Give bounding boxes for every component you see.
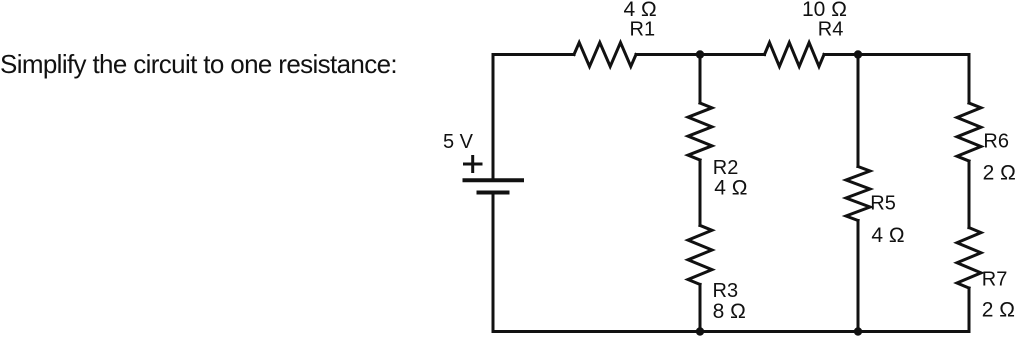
svg-text:4 Ω: 4 Ω (871, 224, 904, 247)
wire R6 to R7 (968, 161, 971, 228)
svg-text:4 Ω: 4 Ω (714, 177, 747, 200)
resistor R2 (688, 103, 712, 160)
wire node B to top right corner (858, 55, 969, 104)
wire R1 to node A (636, 53, 700, 56)
resistor R7 (957, 228, 981, 288)
svg-text:2 Ω: 2 Ω (982, 299, 1015, 322)
plus sign of battery (463, 155, 483, 173)
wire node A to R2 (699, 55, 702, 104)
node C junction dot (696, 327, 704, 335)
resistor R5 (846, 167, 870, 221)
svg-text:R4: R4 (818, 19, 844, 41)
battery V1 plate long (+) (463, 178, 525, 182)
svg-text:5 V: 5 V (443, 131, 474, 153)
wire R4 to node B (824, 53, 858, 56)
node B junction dot (854, 50, 862, 58)
resistor R1 (574, 43, 636, 67)
wire R7 to bottom right corner (858, 288, 969, 332)
wire top left (battery top to R1) (493, 55, 574, 181)
svg-text:8 Ω: 8 Ω (713, 300, 746, 323)
wire node B to R5 (857, 55, 860, 167)
svg-text:2 Ω: 2 Ω (983, 162, 1016, 185)
wire R2 to R3 (699, 160, 702, 225)
node D junction dot (854, 327, 862, 335)
wire bottom (node D to node C to battery) (493, 193, 858, 332)
battery V1 plate short (-) (477, 191, 510, 195)
svg-text:R1: R1 (630, 19, 656, 41)
resistor R4 (765, 43, 825, 67)
wire R5 to bottom node D (857, 221, 860, 332)
wire node A to R4 (700, 53, 765, 56)
resistor R6 (957, 103, 981, 161)
node A junction dot (696, 50, 704, 58)
resistor R3 (688, 225, 712, 284)
svg-text:R3: R3 (713, 280, 739, 302)
svg-text:R5: R5 (870, 193, 896, 215)
svg-text:R6: R6 (983, 131, 1009, 153)
svg-text:R7: R7 (982, 269, 1008, 291)
wire R3 to bottom node C (699, 284, 702, 331)
svg-text:Simplify the circuit to one re: Simplify the circuit to one resistance: (0, 49, 397, 79)
